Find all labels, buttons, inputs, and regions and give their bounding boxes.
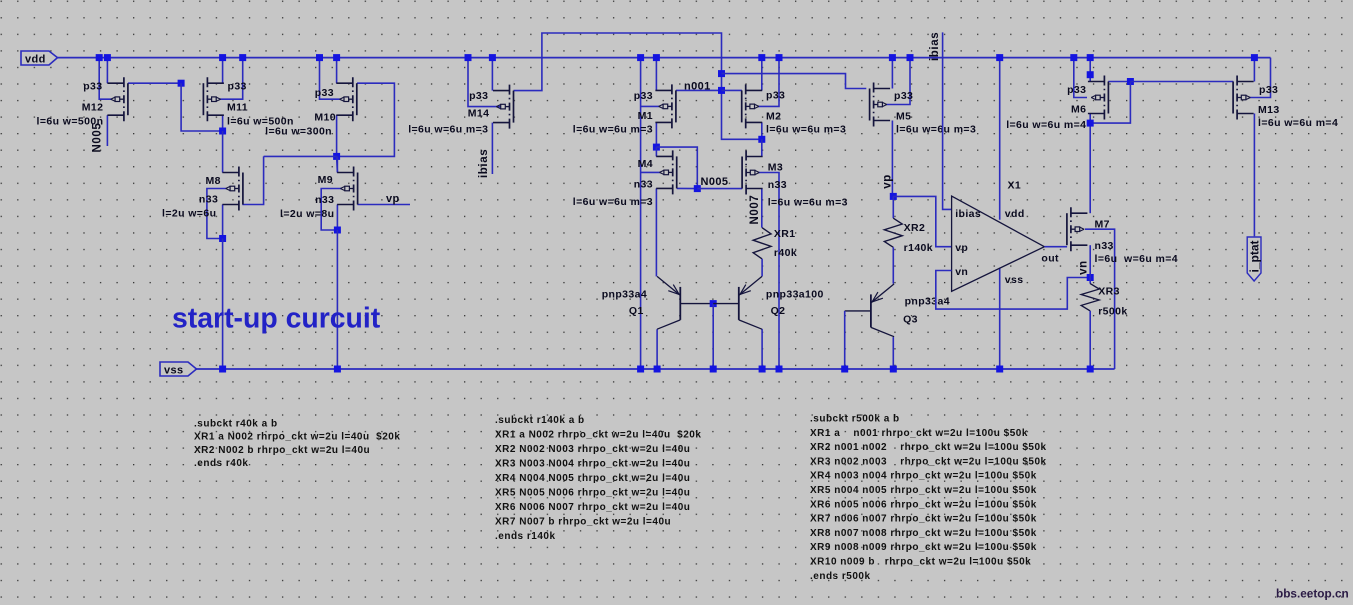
junction vdd M11 source xyxy=(219,54,226,61)
transistor Q3 xyxy=(871,284,894,337)
wire M14 drain ibias stub xyxy=(491,123,493,174)
wire M5 bulk to vdd xyxy=(887,58,910,105)
vss port flag xyxy=(160,362,197,377)
junction vdd M12 bulk xyxy=(96,54,103,61)
svg-text:l=6u w=6u m=3: l=6u w=6u m=3 xyxy=(896,124,976,136)
svg-text:p33: p33 xyxy=(228,80,247,92)
svg-text:.ends r500k: .ends r500k xyxy=(810,571,871,582)
wire M9 source to vss xyxy=(336,230,338,369)
svg-text:XR10 n009 b rhrpo_ckt w=2u l: XR10 n009 b rhrpo_ckt w=2u l=100u $50k xyxy=(810,557,1031,568)
transistor M7 xyxy=(1067,207,1088,251)
svg-text:start-up curcuit: start-up curcuit xyxy=(172,303,381,335)
svg-text:M4: M4 xyxy=(638,158,653,170)
wire XR2 bottom to Q3 emitter xyxy=(892,247,894,283)
svg-text:n33: n33 xyxy=(199,194,218,206)
junction vdd M1 bulk xyxy=(637,54,644,61)
svg-text:XR3 n002 n003 rhrpo_ckt w=2: XR3 n002 n003 rhrpo_ckt w=2u l=100u $50k xyxy=(810,456,1047,467)
svg-text:.subckt r500k a b: .subckt r500k a b xyxy=(810,414,900,425)
wire M4 bulk stub xyxy=(641,171,661,173)
svg-text:n33: n33 xyxy=(634,179,653,191)
svg-text:p33: p33 xyxy=(1259,84,1278,96)
junction vdd M10 bulk xyxy=(316,54,323,61)
svg-text:vss: vss xyxy=(164,365,184,377)
svg-text:M7: M7 xyxy=(1095,218,1110,230)
wire M7 bulk to vss rail end xyxy=(1085,229,1115,369)
svg-text:M6: M6 xyxy=(1071,103,1086,115)
wire Q1 collector to vss xyxy=(656,329,658,369)
wire Q2 base xyxy=(713,303,739,305)
XR1 labels xyxy=(774,228,797,259)
junction G (N005) xyxy=(694,185,701,192)
svg-text:l=6u w=6u m=3: l=6u w=6u m=3 xyxy=(408,124,488,136)
transistor M14 xyxy=(493,85,514,129)
svg-text:p33: p33 xyxy=(315,87,334,99)
wire M14 bulk to vdd xyxy=(468,58,501,107)
junction vdd M12 source xyxy=(104,54,111,61)
svg-text:ibias: ibias xyxy=(955,208,981,220)
junction vss M9 xyxy=(334,366,341,373)
wire M4 source/top to node F xyxy=(655,147,657,156)
wire M11 source to vdd xyxy=(222,58,224,84)
svg-text:vn: vn xyxy=(1078,260,1090,275)
wire M9 bulk loop xyxy=(321,189,341,231)
Q2 labels xyxy=(766,289,824,318)
transistor M6 xyxy=(1088,76,1109,120)
i_ptat port flag xyxy=(1247,237,1261,281)
svg-text:out: out xyxy=(1041,253,1059,265)
svg-text:XR6 N006 N007 rhrpo_ckt w=2u l: XR6 N006 N007 rhrpo_ckt w=2u l=40u xyxy=(495,502,690,513)
svg-text:M14: M14 xyxy=(468,108,490,120)
junction vss M1 bulk rail xyxy=(637,366,644,373)
junction F (M1 drain / M4 drain) xyxy=(653,144,660,151)
svg-text:XR1 a N002 rhrpo_ckt w=2u l=40: XR1 a N002 rhrpo_ckt w=2u l=40u $20k xyxy=(495,430,701,441)
svg-text:vn: vn xyxy=(955,266,968,278)
svg-text:r40k: r40k xyxy=(774,247,797,259)
svg-text:M1: M1 xyxy=(638,110,653,122)
wire M6 gate to M13 gate xyxy=(1130,81,1233,83)
wire node C to M8 gate branch xyxy=(264,155,337,157)
wire M2 bulk to vdd xyxy=(758,58,779,107)
svg-text:pnp33a4: pnp33a4 xyxy=(905,296,950,308)
junction K (vn node) xyxy=(1087,274,1094,281)
op-amp pin labels xyxy=(955,208,1024,286)
svg-text:XR1: XR1 xyxy=(774,228,796,240)
Q3 labels xyxy=(903,296,950,326)
wire M10 gate loop to drain xyxy=(337,83,395,156)
junction vdd M6 bulk xyxy=(1070,54,1077,61)
vdd port flag xyxy=(21,51,58,66)
junction vdd M2 bulk xyxy=(776,54,783,61)
wire M1 drain down xyxy=(655,122,657,147)
wire M6 bulk to vdd xyxy=(1074,58,1087,98)
wire M8 bulk to source xyxy=(207,189,226,239)
junction A (M12/M11 gates) xyxy=(178,80,185,87)
junction B (M11 drain / M8 drain) xyxy=(219,128,226,135)
svg-text:p33: p33 xyxy=(894,90,913,102)
svg-text:p33: p33 xyxy=(634,90,653,102)
wire M8 source down xyxy=(222,205,224,239)
junction M6 source mid xyxy=(1087,71,1094,78)
wire M10 source to vdd xyxy=(336,58,338,84)
wire M11 drain down xyxy=(222,115,224,131)
wire Q2 collector to vss xyxy=(761,329,763,369)
svg-text:l=6u w=6u m=4: l=6u w=6u m=4 xyxy=(1095,253,1179,265)
junction vss XR3 xyxy=(1087,366,1094,373)
wire Q1 base to shared node xyxy=(680,303,713,305)
svg-text:l=6u w=300n: l=6u w=300n xyxy=(265,126,332,138)
M11 labels xyxy=(227,80,294,127)
wire M13 drain to i_ptat flag xyxy=(1253,114,1255,237)
junction vss M3 bulk xyxy=(776,366,783,373)
svg-text:XR2 N002 N003 rhrpo_ckt w=2u l: XR2 N002 N003 rhrpo_ckt w=2u l=40u xyxy=(495,444,690,455)
wire M5 source to vdd xyxy=(891,58,893,89)
svg-text:N005: N005 xyxy=(701,176,729,188)
svg-text:pnp33a4: pnp33a4 xyxy=(602,289,647,301)
junction vss Q3 collector xyxy=(890,366,897,373)
M7 labels xyxy=(1095,218,1179,264)
wire M12 bulk to vdd xyxy=(99,58,111,100)
junction E (M9 source) xyxy=(334,227,341,234)
M14 labels xyxy=(408,90,489,136)
svg-text:vss: vss xyxy=(1005,274,1024,286)
svg-text:vp: vp xyxy=(882,174,894,189)
svg-text:p33: p33 xyxy=(766,89,785,101)
wire M5 drain to vp node xyxy=(891,121,894,197)
wire M1 bulk stub xyxy=(641,105,660,107)
wire M7 drain up to M6 xyxy=(1089,123,1091,213)
junction vdd M5 bulk xyxy=(907,54,914,61)
svg-text:r500k: r500k xyxy=(1098,306,1127,318)
resistor XR3 r500k xyxy=(1081,284,1099,311)
junction vdd M6 source xyxy=(1087,54,1094,61)
wire opamp vn input loop xyxy=(936,271,1090,310)
junction vss Q3 base xyxy=(841,366,848,373)
wire M1 gate to n001 xyxy=(676,89,722,91)
wire M10 drain down xyxy=(336,115,338,156)
junction n001 lower (M1/M2 gates) xyxy=(718,87,725,94)
junction vss Q2 xyxy=(759,366,766,373)
wire opamp vss pin to rail xyxy=(999,268,1001,369)
svg-text:XR5 N005 N006 rhrpo_ckt w=2u l: XR5 N005 N006 rhrpo_ckt w=2u l=40u xyxy=(495,488,690,499)
M4 labels xyxy=(573,158,653,208)
svg-text:l=6u w=6u m=3: l=6u w=6u m=3 xyxy=(768,196,848,208)
junction J (vp node) xyxy=(890,193,897,200)
op-amp X1 xyxy=(952,196,1045,291)
wire node F to N005 xyxy=(656,147,697,189)
transistor Q2 xyxy=(739,276,762,329)
svg-text:M8: M8 xyxy=(206,175,221,187)
wire Q3 collector to vss xyxy=(892,337,894,369)
wire M10 bulk to vdd xyxy=(320,58,341,100)
transistor M8 xyxy=(222,167,243,211)
svg-text:XR2 N002 b rhrpo_ckt w=2u l=40: XR2 N002 b rhrpo_ckt w=2u l=40u xyxy=(194,445,370,456)
transistor M13 xyxy=(1233,76,1254,120)
wire M12 source to vdd xyxy=(106,58,108,84)
svg-text:M9: M9 xyxy=(318,174,333,186)
junction vss base node xyxy=(710,366,717,373)
wire M1 source to vdd xyxy=(655,58,657,91)
junction M (M6 drain) xyxy=(1087,120,1094,127)
svg-text:XR5 n004 n005 rhrpo_ckt w=2u l: XR5 n004 n005 rhrpo_ckt w=2u l=100u $50k xyxy=(810,485,1037,496)
wire M4 gate to N005 junction xyxy=(677,187,698,189)
junction vdd M1 source xyxy=(653,54,660,61)
wire M14 gate to top net n001 xyxy=(514,33,722,91)
transistor M4 xyxy=(656,150,677,194)
svg-text:XR1 a N002 rhrpo_ckt w=2u l=40: XR1 a N002 rhrpo_ckt w=2u l=40u $20k xyxy=(194,432,400,443)
junction vdd M10 source xyxy=(333,54,340,61)
svg-text:vdd: vdd xyxy=(25,54,46,66)
wire n001 to M5 gate xyxy=(722,74,867,89)
junction L (M6 gate) xyxy=(1127,78,1134,85)
svg-text:n33: n33 xyxy=(1095,240,1114,252)
wire M13 source to vdd xyxy=(1253,58,1255,82)
transistor M10 xyxy=(336,77,357,121)
svg-text:vdd: vdd xyxy=(1005,208,1025,220)
wire junction B to M8 drain xyxy=(222,131,224,173)
transistor M3 xyxy=(742,151,763,195)
wire opamp ibias input xyxy=(943,32,952,209)
resistor XR2 r140k xyxy=(884,218,902,247)
M10 labels xyxy=(265,87,336,138)
svg-text:p33: p33 xyxy=(1067,84,1086,96)
svg-text:XR7 n006 n007 rhrpo_ckt w=2u l: XR7 n006 n007 rhrpo_ckt w=2u l=100u $50k xyxy=(810,514,1037,525)
M3 labels xyxy=(768,162,848,209)
junction n001 upper xyxy=(718,70,725,77)
net vdd rail xyxy=(58,57,1271,59)
wire M12 drain to N005 xyxy=(106,115,108,146)
junction vdd opamp xyxy=(996,54,1003,61)
wire M3 bulk to vss column xyxy=(759,173,779,370)
svg-text:n001: n001 xyxy=(684,80,711,92)
junction vss M8 xyxy=(219,366,226,373)
resistor XR1 r40k xyxy=(753,228,771,259)
junction vss Q1 xyxy=(654,366,661,373)
svg-text:Q1: Q1 xyxy=(629,305,644,317)
junction D (M8 source/bulk) xyxy=(219,235,226,242)
Q1 labels xyxy=(602,289,647,318)
svg-text:N007: N007 xyxy=(749,195,761,225)
transistor M11 xyxy=(203,77,224,121)
svg-text:XR8 n007 n008 rhrpo_ckt w=2u l: XR8 n007 n008 rhrpo_ckt w=2u l=100u $50k xyxy=(810,528,1037,539)
wire M8 gate from node C xyxy=(242,156,263,204)
wire M14 source to vdd xyxy=(491,58,493,91)
svg-text:ibias: ibias xyxy=(478,149,490,178)
svg-text:XR4 N004 N005 rhrpo_ckt w=2u l: XR4 N004 N005 rhrpo_ckt w=2u l=40u xyxy=(495,473,690,484)
svg-text:ibias: ibias xyxy=(929,32,941,61)
wire XR3 bottom to vss xyxy=(1089,311,1091,369)
svg-text:M3: M3 xyxy=(768,162,783,174)
svg-text:l=6u w=6u m=3: l=6u w=6u m=3 xyxy=(766,124,846,136)
svg-text:l=6u w=6u m=3: l=6u w=6u m=3 xyxy=(573,123,653,135)
svg-text:bbs.eetop.cn: bbs.eetop.cn xyxy=(1276,587,1349,601)
wire M1 bulk rail (vdd to vss long vertical) xyxy=(640,58,642,369)
junction vdd M5 source xyxy=(889,54,896,61)
svg-text:M2: M2 xyxy=(766,111,781,123)
svg-text:l=2u w=8u: l=2u w=8u xyxy=(280,208,334,220)
svg-text:XR3: XR3 xyxy=(1098,286,1120,298)
svg-text:XR2: XR2 xyxy=(904,222,926,234)
svg-text:.subckt r40k a b: .subckt r40k a b xyxy=(194,418,278,429)
svg-text:l=6u w=6u m=4: l=6u w=6u m=4 xyxy=(1006,119,1086,131)
svg-text:.ends r40k: .ends r40k xyxy=(194,458,248,469)
svg-text:n33: n33 xyxy=(768,179,787,191)
svg-text:l=6u w=6u m=4: l=6u w=6u m=4 xyxy=(1258,117,1338,129)
wire XR3 top lead xyxy=(1089,278,1091,284)
wire M12 gate to junction A xyxy=(128,82,181,84)
transistor Q1 xyxy=(657,276,680,329)
transistor M12 xyxy=(107,77,128,121)
junction vdd M14 source xyxy=(489,54,496,61)
wire M2 gate from n001 xyxy=(722,89,742,91)
junction vdd M13 source xyxy=(1251,54,1258,61)
wire M9 source/top to node C xyxy=(336,156,338,172)
svg-text:n33: n33 xyxy=(315,194,334,206)
wire node C down to M9 drain xyxy=(336,156,339,172)
svg-text:vp: vp xyxy=(955,242,968,254)
svg-text:.ends r140k: .ends r140k xyxy=(495,531,556,542)
XR2 labels xyxy=(904,222,933,254)
wire vdd rail drop to M13 bulk xyxy=(1250,58,1271,98)
wire M9 gate to vp stub xyxy=(357,204,410,206)
svg-text:.subckt r140k a b: .subckt r140k a b xyxy=(495,415,585,426)
wire M8 source to vss xyxy=(222,239,224,370)
svg-text:M13: M13 xyxy=(1258,104,1280,116)
svg-text:X1: X1 xyxy=(1008,180,1022,192)
wire XR1 bottom to Q2 emitter xyxy=(761,259,763,277)
wire M6 source to vdd xyxy=(1089,58,1091,82)
svg-text:p33: p33 xyxy=(469,90,488,102)
wire M6 gate to junction L xyxy=(1108,81,1130,83)
junction I (Q1/Q2 base) xyxy=(710,300,717,307)
svg-text:XR3 N003 N004 rhrpo_ckt w=2u l: XR3 N003 N004 rhrpo_ckt w=2u l=40u xyxy=(495,459,690,470)
wire junction A down to M11 drain xyxy=(181,83,223,131)
svg-text:M10: M10 xyxy=(314,112,336,124)
M12 labels xyxy=(37,80,104,127)
svg-text:vp: vp xyxy=(386,193,400,205)
svg-text:pnp33a100: pnp33a100 xyxy=(766,289,824,301)
junction vdd M11 bulk xyxy=(239,54,246,61)
M13 labels xyxy=(1258,84,1338,129)
wire vp node to opamp vp input xyxy=(893,196,951,246)
wire M2 source to vdd xyxy=(761,58,763,91)
M1 labels xyxy=(573,90,653,135)
text block .subckt r140k xyxy=(495,415,701,542)
wire M4 drain down to Q1 emitter xyxy=(655,188,657,276)
svg-text:M12: M12 xyxy=(82,102,104,114)
wire Q3 base to vss xyxy=(845,310,871,312)
svg-text:XR6 n005 n006 rhrpo_ckt w=2u l: XR6 n005 n006 rhrpo_ckt w=2u l=100u $50k xyxy=(810,499,1037,510)
wire M6 gate loop down to drain xyxy=(1090,82,1130,124)
svg-text:Q2: Q2 xyxy=(771,305,786,317)
junction vdd M2 source xyxy=(758,54,765,61)
junction H (M2 drain / M3 drain) xyxy=(758,136,765,143)
transistor M5 xyxy=(870,83,891,127)
svg-text:M5: M5 xyxy=(896,110,911,122)
svg-text:M11: M11 xyxy=(227,102,248,114)
transistor M2 xyxy=(742,84,763,128)
M9 labels xyxy=(280,174,334,220)
wire XR2 top lead xyxy=(892,196,894,218)
wire M9 bottom down xyxy=(336,205,338,231)
transistor M9 xyxy=(337,167,358,211)
junction vdd M14 bulk xyxy=(465,54,472,61)
junction vss opamp xyxy=(996,366,1003,373)
M5 labels xyxy=(894,90,976,136)
junction C (M10 drain node) xyxy=(333,153,340,160)
wire M7 source down to vn node xyxy=(1089,245,1091,277)
M6 labels xyxy=(1006,84,1086,131)
M2 labels xyxy=(766,89,846,135)
net n001 column xyxy=(722,74,762,140)
wire M2 drain down xyxy=(761,122,763,139)
M8 labels xyxy=(162,175,221,219)
wire M3 drain to r40k xyxy=(761,189,763,228)
svg-text:l=2u w=6u: l=2u w=6u xyxy=(162,207,216,219)
svg-text:XR1 a n001 rhrpo_ckt w=2u l: XR1 a n001 rhrpo_ckt w=2u l=100u $50k xyxy=(810,428,1028,439)
svg-text:XR4 n003 n004 rhrpo_ckt w=2u l: XR4 n003 n004 rhrpo_ckt w=2u l=100u $50k xyxy=(810,471,1037,482)
wire base node to vss xyxy=(712,304,714,369)
net vss rail xyxy=(197,368,1115,370)
text block .subckt r40k xyxy=(194,418,400,469)
transistor M1 xyxy=(655,84,676,128)
svg-text:l=6u w=6u m=3: l=6u w=6u m=3 xyxy=(573,196,653,208)
XR3 labels xyxy=(1098,286,1127,318)
wire M6 drain down xyxy=(1089,114,1091,124)
svg-text:XR2 n001 n002 rhrpo_ckt w=2: XR2 n001 n002 rhrpo_ckt w=2u l=100u $50k xyxy=(810,442,1047,453)
wire opamp output to M7 gate xyxy=(1044,246,1067,248)
net N005 wire to M3 gate xyxy=(697,188,742,190)
text block .subckt r500k xyxy=(810,414,1047,582)
wire opamp vdd pin to rail xyxy=(999,58,1001,220)
wire M11 bulk to vdd xyxy=(220,58,243,100)
wire M3 top to node H xyxy=(761,139,763,156)
svg-text:Q3: Q3 xyxy=(903,314,918,326)
svg-text:l=6u w=500n: l=6u w=500n xyxy=(37,116,104,128)
svg-text:i_ptat: i_ptat xyxy=(1247,240,1261,272)
svg-text:XR7 N007 b rhrpo_ckt w=2u l=40: XR7 N007 b rhrpo_ckt w=2u l=40u xyxy=(495,517,671,528)
svg-text:r140k: r140k xyxy=(904,242,933,254)
svg-text:XR9 n008 n009 rhrpo_ckt w=2u l: XR9 n008 n009 rhrpo_ckt w=2u l=100u $50k xyxy=(810,542,1037,553)
svg-text:p33: p33 xyxy=(83,80,102,92)
